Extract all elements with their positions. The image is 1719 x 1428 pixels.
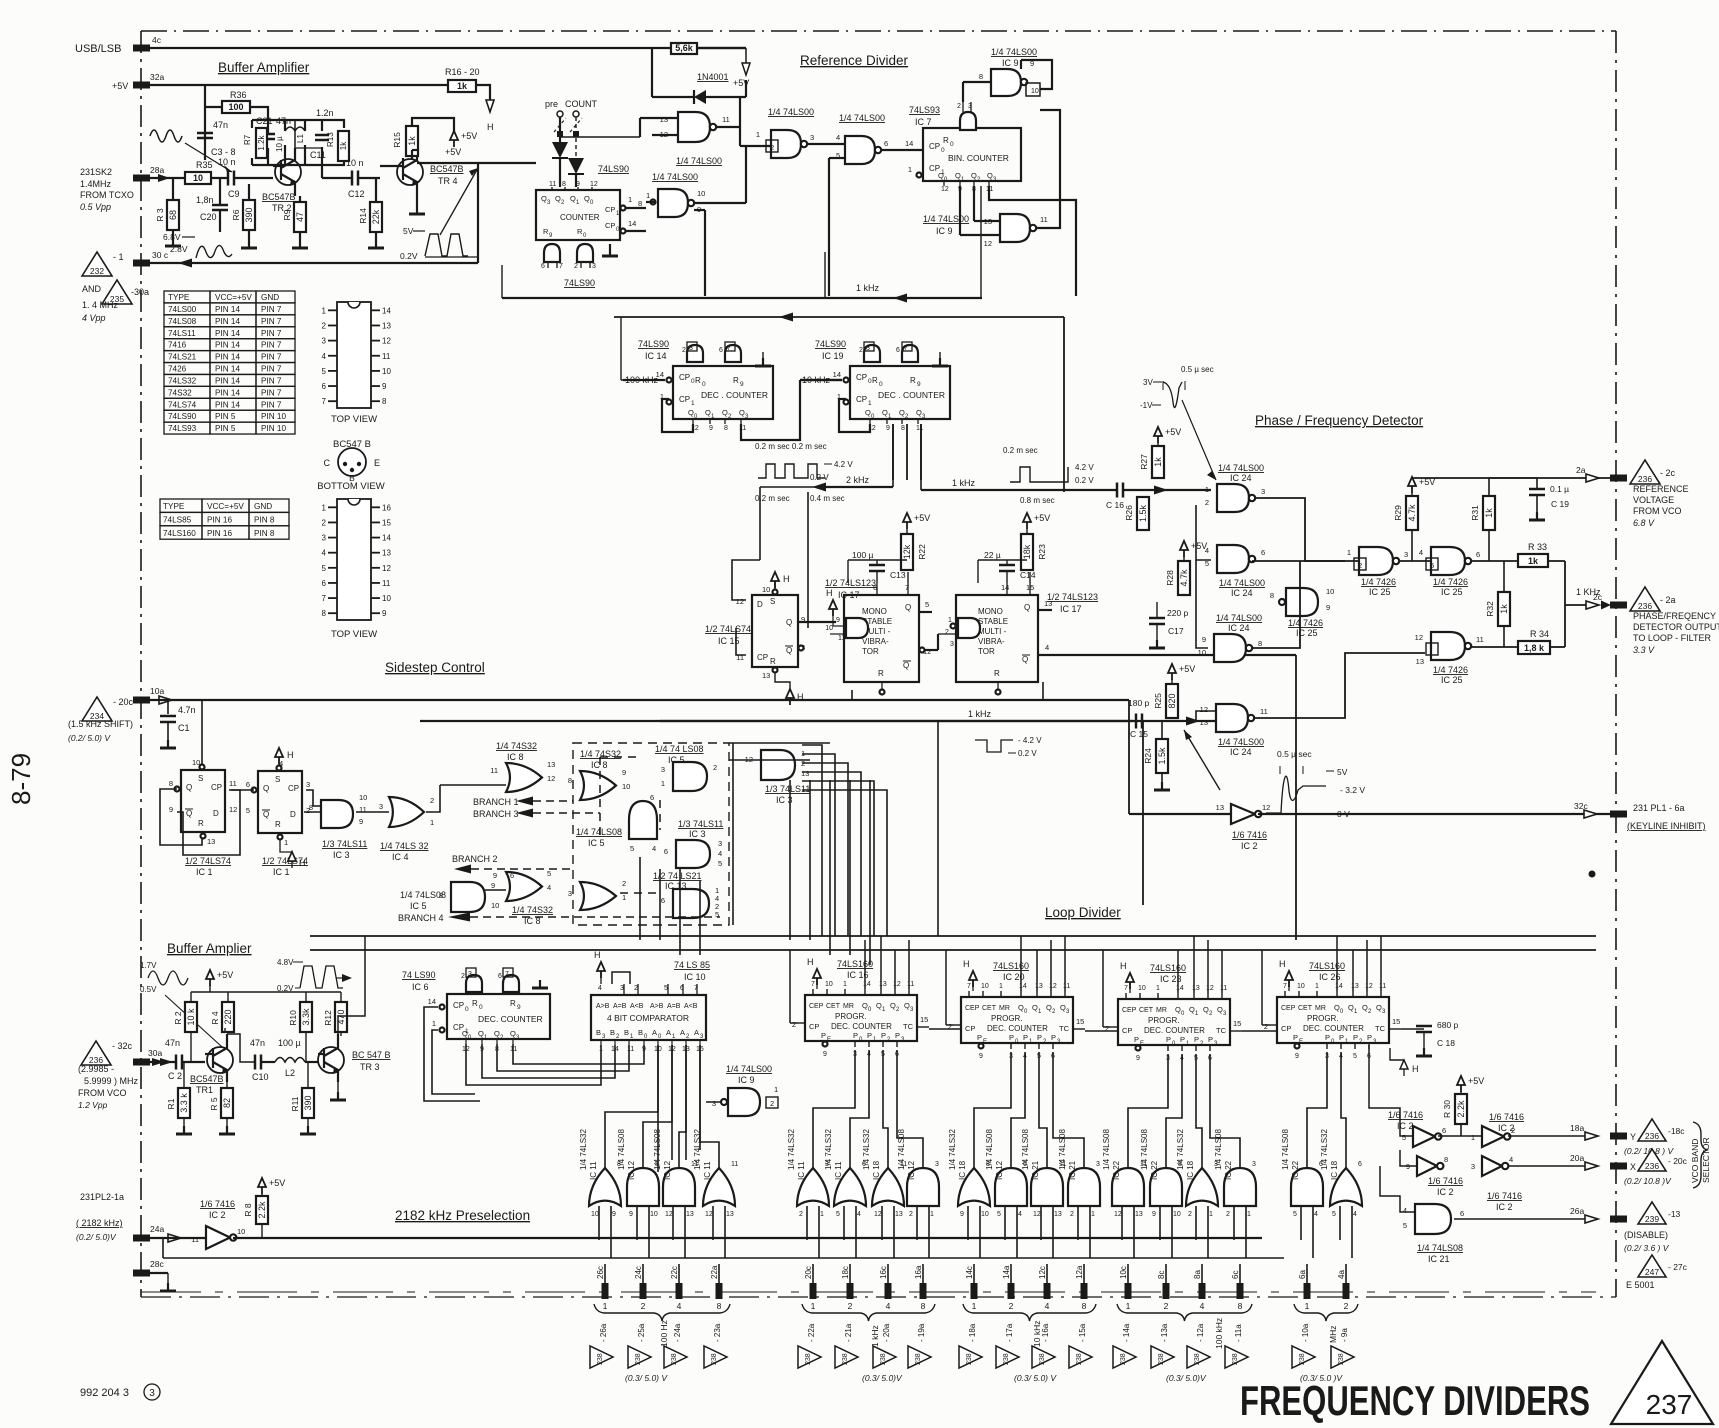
brace VCO band	[1693, 1122, 1707, 1188]
svg-text:- 27c: - 27c	[1668, 1262, 1688, 1272]
svg-text:10: 10	[1173, 1211, 1181, 1218]
svg-text:4: 4	[1200, 1301, 1205, 1311]
binary weight 1	[603, 1301, 608, 1311]
svg-text:74LS21: 74LS21	[168, 353, 197, 362]
svg-text:R28: R28	[1165, 570, 1175, 586]
wire bus 721	[420, 720, 1143, 722]
annotation arrow det	[0, 0, 1, 1]
resistor R22 12k	[901, 534, 927, 570]
gate 1/4 74LS32 IC 11 bottom row	[693, 1129, 738, 1283]
svg-text:24c: 24c	[634, 1266, 643, 1279]
resistor R16-20 1k	[445, 67, 480, 92]
NAND 1/4 7426 IC25 a	[1347, 547, 1408, 597]
ground R14	[368, 240, 384, 248]
ref triangle 238 - 14a	[1113, 1323, 1136, 1368]
capacitor C15 180p	[1128, 698, 1150, 739]
svg-text:1: 1	[868, 400, 872, 407]
wire counter P to gate 1053	[1053, 1052, 1084, 1168]
svg-text:1/4 74LS32: 1/4 74LS32	[862, 1129, 871, 1170]
wire keyline	[1129, 801, 1611, 818]
resistor 5.6k	[671, 43, 697, 54]
svg-text:S: S	[770, 597, 775, 606]
connector 12c	[1038, 1266, 1051, 1299]
wire 26a out	[1454, 1206, 1598, 1223]
svg-text:4.7n: 4.7n	[178, 705, 196, 715]
svg-text:5,6k: 5,6k	[675, 43, 694, 53]
svg-text:H: H	[487, 122, 494, 132]
svg-text:16a: 16a	[914, 1265, 923, 1279]
+5V R30	[1457, 1076, 1484, 1094]
svg-text:R26: R26	[1124, 505, 1134, 521]
svg-text:TYPE: TYPE	[163, 502, 185, 511]
ff15 pins	[736, 585, 806, 680]
sheet triangle 237	[1611, 1341, 1713, 1424]
svg-text:(0.3/ 5.0) V: (0.3/ 5.0) V	[1014, 1373, 1057, 1383]
svg-text:2: 2	[1511, 1126, 1515, 1135]
svg-text:E: E	[374, 458, 380, 468]
svg-text:1 kHz: 1 kHz	[870, 1325, 880, 1347]
svg-text:MHz: MHz	[1328, 1326, 1338, 1343]
svg-text:1: 1	[646, 191, 650, 200]
capacitor C20 1,8n	[196, 195, 228, 222]
svg-text:1k: 1k	[1484, 508, 1494, 518]
svg-text:1k: 1k	[1499, 604, 1509, 614]
svg-text:C 16: C 16	[1106, 500, 1124, 510]
svg-text:C: C	[324, 458, 331, 468]
svg-text:4: 4	[547, 883, 551, 892]
svg-text:8: 8	[979, 72, 983, 81]
svg-text:1: 1	[756, 130, 760, 139]
connector 30a	[133, 1048, 173, 1066]
svg-text:3: 3	[568, 889, 572, 898]
connector 8a	[1193, 1270, 1206, 1299]
net 231PL2-1a	[76, 1192, 124, 1242]
connector 24a	[133, 1224, 181, 1242]
svg-text:6: 6	[896, 347, 900, 354]
svg-text:0: 0	[479, 1004, 483, 1011]
svg-text:4: 4	[322, 352, 327, 361]
svg-text:R 3: R 3	[155, 208, 165, 222]
svg-text:COUNT: COUNT	[565, 99, 597, 109]
svg-text:1/4 74LS08: 1/4 74LS08	[985, 1129, 994, 1170]
svg-text:- 20c: - 20c	[1668, 1156, 1688, 1166]
wire IC9 top	[963, 60, 1052, 102]
monostable 1 74LS123 IC17	[825, 578, 919, 682]
OR 1/4 74S32 IC8 c	[493, 869, 551, 901]
svg-text:IC 6: IC 6	[412, 982, 429, 992]
svg-text:PIN 16: PIN 16	[207, 529, 232, 538]
svg-text:IC 11: IC 11	[589, 1161, 598, 1180]
svg-text:R 5: R 5	[209, 1097, 219, 1111]
connector 18c	[841, 1266, 854, 1299]
gate 1/4 74LS08 IC 22 bottom row	[1214, 1129, 1256, 1283]
svg-text:10: 10	[359, 793, 367, 802]
svg-text:0.5V: 0.5V	[140, 985, 157, 994]
svg-text:IC 7: IC 7	[915, 117, 932, 127]
svg-text:P: P	[867, 1031, 872, 1040]
connector 12a	[1075, 1265, 1088, 1299]
svg-text:12: 12	[1365, 983, 1373, 990]
connector 26c	[596, 1266, 609, 1299]
svg-text:IC 2: IC 2	[209, 1210, 226, 1220]
svg-text:0: 0	[702, 381, 706, 388]
svg-text:1/4 74LS32: 1/4 74LS32	[1176, 1129, 1185, 1170]
brace group3	[963, 1304, 1096, 1321]
svg-text:9: 9	[1136, 1055, 1140, 1062]
svg-text:BC 547 B: BC 547 B	[352, 1050, 391, 1060]
svg-text:P: P	[1208, 1035, 1213, 1044]
svg-text:236: 236	[1638, 474, 1652, 484]
svg-text:X: X	[1630, 1162, 1636, 1172]
svg-text:(1.5 kHz SHIFT): (1.5 kHz SHIFT)	[68, 719, 133, 729]
ref triangle 247 -27c	[1638, 1255, 1688, 1277]
svg-text:8: 8	[1270, 591, 1274, 600]
wire detector cross 3	[1252, 561, 1300, 648]
connector 4c	[133, 35, 162, 52]
svg-text:-30a: -30a	[131, 287, 149, 297]
svg-text:1.7V: 1.7V	[140, 961, 157, 970]
wire detector cross 2	[1252, 560, 1345, 562]
svg-text:BRANCH 1: BRANCH 1	[473, 797, 519, 807]
svg-text:1: 1	[811, 1301, 816, 1311]
wire drop v680	[679, 869, 681, 955]
svg-text:2: 2	[909, 1211, 913, 1218]
connector 10c	[1119, 1266, 1132, 1299]
svg-text:47n: 47n	[165, 1038, 180, 1048]
svg-text:3: 3	[322, 337, 327, 346]
svg-text:CET: CET	[826, 1003, 841, 1010]
svg-text:+5V: +5V	[269, 1178, 285, 1188]
svg-text:11: 11	[549, 181, 556, 188]
inductor L1 10u	[275, 127, 305, 152]
label IC1b	[262, 856, 308, 877]
svg-text:14: 14	[1335, 983, 1343, 990]
wire R11	[300, 1062, 316, 1134]
svg-text:1/6 7416: 1/6 7416	[1489, 1112, 1524, 1122]
diode 1N4001	[652, 48, 746, 104]
svg-text:4: 4	[598, 985, 602, 992]
svg-text:A: A	[694, 1028, 699, 1037]
svg-text:Q: Q	[786, 646, 792, 655]
wire bus left join	[365, 936, 1262, 1027]
mono2 input gate	[938, 617, 980, 648]
svg-text:74LS160: 74LS160	[1150, 963, 1186, 973]
svg-text:28a: 28a	[150, 165, 164, 175]
capacitor C18 680p	[1401, 1020, 1459, 1056]
wire R12	[340, 992, 342, 1036]
svg-text:9: 9	[1202, 635, 1206, 644]
svg-text:12: 12	[1114, 1211, 1122, 1218]
svg-text:236: 236	[1645, 1161, 1659, 1171]
label IC1a	[185, 856, 231, 877]
svg-text:6: 6	[498, 973, 502, 980]
svg-text:13: 13	[686, 1211, 694, 1218]
svg-text:TC: TC	[903, 1022, 914, 1031]
svg-text:11: 11	[907, 981, 914, 988]
svg-text:11: 11	[1260, 707, 1268, 716]
wire counter P to gate 883	[883, 1050, 888, 1168]
volt label g5	[1300, 1373, 1343, 1383]
svg-text:12: 12	[1415, 633, 1423, 642]
svg-text:-18c: -18c	[1668, 1126, 1685, 1136]
svg-text:IC 18: IC 18	[1186, 1160, 1195, 1180]
svg-text:1,8 k: 1,8 k	[1524, 643, 1545, 653]
svg-text:H: H	[1412, 1064, 1419, 1074]
wire counter P to gate 897	[897, 1050, 923, 1168]
svg-text:4: 4	[1509, 1155, 1513, 1164]
svg-text:MULTI -: MULTI -	[978, 627, 1007, 636]
capacitor C9 10n	[218, 157, 240, 199]
wire R5	[219, 1082, 235, 1134]
ref triangle 236 -18c	[1638, 1119, 1685, 1141]
svg-text:8: 8	[1258, 639, 1262, 648]
wire mono feedback bottom	[808, 492, 1043, 700]
svg-text:0: 0	[465, 1006, 469, 1013]
svg-text:1: 1	[284, 838, 288, 847]
wire drop v733	[732, 743, 734, 925]
svg-text:2: 2	[848, 1301, 853, 1311]
svg-text:STABLE: STABLE	[978, 617, 1008, 626]
svg-text:5: 5	[997, 1211, 1001, 1218]
wire mono1 top	[848, 560, 908, 583]
svg-text:6: 6	[1442, 1126, 1446, 1135]
wire C12	[322, 165, 380, 178]
svg-text:3: 3	[1471, 1162, 1475, 1171]
svg-text:74LS160: 74LS160	[993, 961, 1029, 971]
svg-text:12: 12	[1206, 985, 1214, 992]
wire R16-20 out	[476, 85, 490, 100]
wire v800 presel	[0, 0, 1, 1]
svg-text:R27: R27	[1139, 454, 1149, 470]
svg-text:2: 2	[322, 321, 327, 330]
svg-text:1/4 74LS32: 1/4 74LS32	[787, 1129, 796, 1170]
svg-text:238: 238	[597, 1353, 604, 1365]
binary weight 2	[848, 1301, 853, 1311]
svg-text:11: 11	[1476, 635, 1484, 644]
svg-text:9: 9	[917, 381, 921, 388]
svg-text:+5V: +5V	[112, 81, 128, 91]
svg-text:- 18a: - 18a	[968, 1323, 977, 1342]
wire drop v640	[639, 857, 641, 940]
svg-text:R11: R11	[290, 1096, 300, 1111]
svg-text:P: P	[1325, 1033, 1330, 1042]
svg-text:2: 2	[1264, 1022, 1268, 1031]
svg-text:2: 2	[1188, 1211, 1192, 1218]
svg-text:82: 82	[222, 1098, 232, 1108]
svg-text:- 1: - 1	[113, 252, 124, 262]
NAND gate 1/4 74LS00 a	[638, 172, 705, 217]
+5V R28	[1180, 541, 1207, 561]
transistor TR3	[318, 1034, 344, 1082]
svg-text:1/4 74S32: 1/4 74S32	[496, 741, 537, 751]
svg-text:P: P	[895, 1031, 900, 1040]
svg-text:5: 5	[547, 869, 551, 878]
svg-text:R22: R22	[917, 544, 927, 560]
wire det misc	[1489, 477, 1537, 479]
svg-text:74LS93: 74LS93	[909, 105, 940, 115]
wire top rail 478	[1412, 465, 1611, 482]
ref triangle 238 - 20a	[873, 1323, 896, 1368]
wire R9	[299, 196, 301, 240]
svg-text:3: 3	[810, 133, 814, 142]
svg-text:2.2k: 2.2k	[1456, 1100, 1466, 1118]
counter 74LS160 IC20	[948, 959, 1085, 1060]
wire presel bus2	[163, 1238, 1284, 1258]
svg-text:10 k: 10 k	[186, 1008, 196, 1026]
svg-text:P: P	[977, 1033, 982, 1042]
svg-text:IC 25: IC 25	[1441, 587, 1463, 597]
wire nand-top-out	[716, 97, 771, 146]
svg-text:H: H	[807, 957, 814, 967]
svg-text:74LS160: 74LS160	[163, 529, 196, 538]
svg-text:0: 0	[879, 381, 883, 388]
arrow 30c	[178, 259, 192, 268]
waveform 2kHz pulses	[755, 442, 853, 503]
svg-text:R10: R10	[288, 1010, 298, 1026]
svg-text:1/4 7426: 1/4 7426	[1433, 577, 1468, 587]
resistor R25 820	[1153, 684, 1178, 718]
svg-text:pre: pre	[545, 99, 558, 109]
wire R15	[412, 118, 454, 160]
svg-text:11: 11	[1220, 985, 1227, 992]
annotation arrow R24	[1184, 730, 1220, 790]
ref triangle 236 -2c	[1630, 460, 1676, 484]
NAND gate top 13/12	[660, 112, 730, 166]
svg-text:3V: 3V	[1143, 378, 1153, 387]
svg-text:14: 14	[382, 306, 391, 315]
svg-text:1/4 74LS32: 1/4 74LS32	[1320, 1129, 1329, 1170]
svg-text:6.8 V: 6.8 V	[1633, 518, 1655, 528]
svg-text:238: 238	[635, 1353, 642, 1365]
svg-text:4a: 4a	[1337, 1270, 1346, 1279]
wire counter P to gate 869	[850, 1050, 869, 1168]
svg-text:- 17a: - 17a	[1005, 1323, 1014, 1342]
svg-text:R35: R35	[196, 160, 213, 170]
svg-text:1/2 74LS74: 1/2 74LS74	[705, 624, 751, 634]
wire 2kHz down	[0, 0, 1, 1]
svg-text:10: 10	[825, 625, 833, 632]
svg-text:3: 3	[468, 971, 472, 978]
svg-text:10: 10	[1198, 648, 1206, 657]
connector 16a	[914, 1265, 927, 1299]
decade counter 74LS90 IC6	[402, 970, 550, 1041]
DIP-14 package top view	[322, 302, 392, 425]
svg-text:P: P	[1009, 1033, 1014, 1042]
svg-text:3: 3	[935, 1161, 939, 1168]
svg-text:992 204 3: 992 204 3	[80, 1387, 129, 1399]
svg-text:220: 220	[223, 1009, 233, 1024]
svg-text:4: 4	[1314, 1211, 1318, 1218]
wire or8c-or8d	[485, 889, 506, 891]
svg-text:A: A	[666, 1028, 671, 1037]
svg-text:231 PL1 - 6a: 231 PL1 - 6a	[1633, 803, 1685, 813]
resistor R28 4.7k	[1165, 561, 1190, 595]
svg-text:10: 10	[491, 901, 499, 910]
svg-text:2: 2	[859, 347, 863, 354]
svg-text:+5V: +5V	[914, 513, 930, 523]
svg-text:R 2: R 2	[173, 1011, 183, 1025]
svg-text:7416: 7416	[168, 341, 187, 350]
wire TR1 to C10	[227, 1034, 275, 1062]
svg-text:2: 2	[1358, 561, 1362, 570]
wire 1kHz line top	[921, 478, 1211, 495]
text 1.5kHz shift	[68, 719, 133, 743]
svg-text:9: 9	[493, 871, 497, 880]
svg-text:CP: CP	[288, 784, 299, 793]
svg-text:10: 10	[193, 173, 203, 183]
svg-text:26c: 26c	[596, 1266, 605, 1279]
brace group1	[594, 1304, 730, 1321]
svg-text:FROM VCO: FROM VCO	[1633, 506, 1682, 516]
svg-text:4.2 V: 4.2 V	[1075, 463, 1094, 472]
svg-text:12: 12	[1033, 1211, 1041, 1218]
svg-text:2: 2	[799, 1211, 803, 1218]
svg-text:8: 8	[568, 776, 572, 785]
svg-text:13: 13	[1192, 985, 1200, 992]
svg-text:5V: 5V	[403, 226, 414, 236]
connector 20a	[1610, 1162, 1636, 1172]
LC tank rails	[252, 120, 345, 165]
svg-text:A=B: A=B	[667, 1003, 681, 1010]
ref triangle 238 - 16a	[1032, 1323, 1055, 1368]
svg-text:18k: 18k	[1022, 544, 1032, 559]
svg-text:1: 1	[322, 503, 327, 512]
text 1KHz out	[1576, 587, 1603, 602]
svg-text:DEC. COUNTER: DEC. COUNTER	[478, 1014, 543, 1024]
+5V R25	[1168, 664, 1195, 684]
svg-text:6: 6	[719, 347, 723, 354]
svg-text:0: 0	[950, 141, 954, 148]
svg-text:0.2 m sec: 0.2 m sec	[1003, 446, 1038, 455]
svg-text:74LS160: 74LS160	[837, 959, 873, 969]
IC6 reset gates	[461, 968, 548, 992]
svg-text:IC 4: IC 4	[392, 852, 409, 862]
svg-text:13: 13	[762, 671, 770, 680]
connector 2c	[1610, 602, 1627, 609]
waveform 6.8V	[163, 232, 232, 258]
svg-text:TOR: TOR	[862, 647, 879, 656]
svg-text:18c: 18c	[841, 1266, 850, 1279]
wire 10a bus	[150, 699, 1129, 701]
arrow H top	[486, 100, 494, 132]
waveform 4.8V square	[277, 958, 352, 993]
wire bus 325	[1063, 317, 1065, 492]
svg-text:IC 3: IC 3	[333, 850, 350, 860]
svg-text:12: 12	[705, 1211, 713, 1218]
svg-text:14: 14	[863, 981, 871, 988]
svg-text:13: 13	[1044, 599, 1052, 608]
svg-text:9: 9	[836, 617, 840, 624]
OR 1/4 74S32 IC8 top	[490, 741, 555, 792]
svg-text:5: 5	[630, 844, 634, 853]
svg-text:1/4 74S32: 1/4 74S32	[512, 905, 553, 915]
svg-text:A=B: A=B	[613, 1003, 627, 1010]
svg-text:PIN 8: PIN 8	[254, 529, 275, 538]
binary weight 4	[886, 1301, 891, 1311]
counter 74LS90 box	[536, 190, 620, 240]
OR 1/4 74S32 IC8 d	[512, 879, 626, 926]
svg-text:1/2 74LS74: 1/2 74LS74	[185, 856, 231, 866]
svg-text:15: 15	[1233, 1019, 1241, 1028]
svg-text:239: 239	[1645, 1214, 1659, 1224]
svg-text:5: 5	[1293, 1211, 1297, 1218]
svg-text:MR: MR	[999, 1005, 1010, 1012]
svg-text:0.8 m sec: 0.8 m sec	[1020, 496, 1055, 505]
svg-text:IC 11: IC 11	[834, 1161, 843, 1180]
wire base node	[211, 177, 273, 179]
wire or8a	[440, 784, 506, 786]
resistor R35 10	[185, 160, 213, 184]
